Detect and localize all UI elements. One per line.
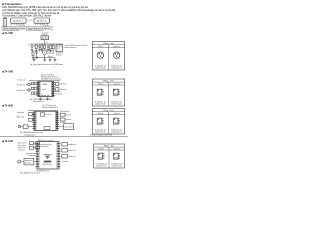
- U4 left pin 6: [36, 155, 37, 157]
- package icon 2: [114, 153, 119, 159]
- crystal symbol inside U4: [44, 154, 52, 156]
- U3 left pin 3: [32, 116, 34, 118]
- capacitor C5: [36, 50, 38, 52]
- section2 right box B2: [56, 82, 59, 85]
- svg-text:Vcc 13.2 V typ set set: Vcc 13.2 V typ set set: [42, 104, 56, 107]
- U4 right pin 11: [59, 143, 60, 145]
- svg-text:display set alt: display set alt: [69, 143, 76, 146]
- svg-text:Tube-dc alt fig markings set a: Tube-dc alt fig markings set alt pin: [3, 27, 25, 30]
- ground rail left: [33, 58, 35, 60]
- ground C2: [38, 48, 41, 50]
- osc bar inside U4: [44, 161, 51, 163]
- coupling box E2: [34, 82, 37, 84]
- section2 bottom wire 4: [50, 97, 52, 98]
- svg-text:control logic set alt pin: control logic set alt pin: [40, 143, 52, 146]
- U3 right pin 15: [58, 122, 60, 124]
- svg-text:D–Pak fig 1 set: D–Pak fig 1 set: [111, 101, 123, 104]
- section2 IC box U2: [38, 81, 54, 96]
- U3 right pin 13: [58, 118, 60, 120]
- svg-text:AFC alt set alt: AFC alt set alt: [17, 116, 24, 119]
- wire U3 to B6: [59, 126, 63, 128]
- svg-text:Pkg – list: Pkg – list: [104, 109, 115, 112]
- matrix wire to U4 row2: [28, 155, 36, 157]
- U4 inner divider left: [38, 142, 40, 169]
- svg-text:to SP out set: to SP out set: [60, 83, 68, 86]
- svg-text:driver set alt: driver set alt: [69, 149, 75, 152]
- right box B5: [60, 118, 65, 121]
- package icon 1: [97, 118, 102, 124]
- svg-text:to SP out set: to SP out set: [60, 88, 68, 91]
- svg-text:Pkg – list: Pkg – list: [104, 144, 115, 147]
- svg-text:micom set alt: micom set alt: [25, 159, 33, 162]
- svg-text:osc set set: osc set set: [45, 113, 52, 116]
- package DIP top view 2: [34, 18, 50, 23]
- wire micom to U4: [34, 161, 37, 163]
- right box B4: [60, 113, 65, 116]
- wire E row2: [37, 87, 38, 89]
- svg-text:Pkg – list: Pkg – list: [104, 42, 115, 45]
- U2 right pin 16: [54, 94, 56, 96]
- section2 right box B3: [56, 88, 59, 91]
- svg-text:D–Pak fig 1 set: D–Pak fig 1 set: [95, 65, 107, 68]
- U4 right pin 14: [59, 150, 60, 152]
- package icon 2: [113, 118, 118, 124]
- svg-text:agc alt set: agc alt set: [66, 118, 72, 121]
- svg-text:◆ TA–80M: ◆ TA–80M: [1, 105, 13, 108]
- package icon 2: [113, 52, 119, 58]
- U4 left pin 5: [36, 153, 37, 155]
- U2 right pin 11: [54, 85, 56, 87]
- svg-text:to AF amp set alt: to AF amp set alt: [60, 110, 69, 113]
- svg-text:bias adj set alt: bias adj set alt: [17, 89, 25, 92]
- package icon 1: [98, 153, 103, 159]
- section4 IC box U4: [37, 142, 59, 169]
- ground C4: [32, 56, 35, 58]
- svg-text:D–Pak fig 1 set: D–Pak fig 1 set: [111, 65, 123, 68]
- svg-text:Vin set set alt: Vin set set alt: [17, 111, 24, 114]
- U3 right pin 10: [58, 112, 60, 114]
- U4 left pin 1: [36, 143, 37, 145]
- coupling box E4: [34, 87, 37, 89]
- svg-text:set: set: [42, 88, 47, 91]
- U4 right pin 16: [59, 155, 60, 157]
- U4 right pin 19: [59, 163, 60, 165]
- U3 left pin 8: [32, 126, 34, 128]
- ground C1: [31, 48, 34, 50]
- U3 left pin 7: [32, 124, 34, 126]
- U3 right pin 14: [58, 120, 60, 122]
- left matrix box M4: [36, 146, 40, 149]
- svg-text:Fig. 3 TA-80 FM front block s: Fig. 3 TA-80 FM front block set set alt: [20, 131, 43, 134]
- section3 top rail: [28, 110, 58, 112]
- capacitor C2: [39, 44, 41, 46]
- svg-text:D–Pak fig 1 set: D–Pak fig 1 set: [95, 101, 107, 104]
- matrix wires: [34, 142, 36, 144]
- ground rail right: [49, 58, 51, 60]
- package SIP side view: [3, 18, 6, 19]
- package icon 1: [97, 89, 102, 95]
- U4 right pin 17: [59, 158, 60, 160]
- U4 left pin 4: [36, 150, 37, 152]
- U4 left pin 7: [36, 158, 37, 160]
- right box R2: [62, 149, 68, 152]
- resistor R5: [52, 44, 54, 45]
- U3 left pin 4: [32, 118, 34, 120]
- ground rail mid: [44, 58, 46, 60]
- table at y144.0 outer border: [94, 144, 125, 168]
- U4 left pin 3: [36, 148, 37, 150]
- svg-text:TA79: TA79: [42, 83, 47, 86]
- U3 inner divider right: [54, 111, 56, 130]
- U3 right pin 18: [58, 128, 60, 130]
- package DIP top view 1: [11, 18, 27, 23]
- ground C5: [35, 56, 38, 58]
- left component box E7: [29, 113, 33, 116]
- left component box E8: [29, 118, 33, 121]
- svg-text:M: M: [44, 52, 46, 54]
- U4 right pin 15: [59, 153, 60, 155]
- U4 inner divider right: [56, 142, 58, 169]
- U2 bottom inner ticks: [42, 95, 43, 96]
- svg-text:D–Pak fig 1 set: D–Pak fig 1 set: [96, 163, 108, 166]
- coupling box E6: [34, 92, 37, 94]
- table subheaders: [108, 147, 110, 168]
- capacitor C1: [31, 44, 33, 46]
- ground rail far right: [54, 58, 56, 60]
- resistor R3: [44, 44, 46, 45]
- wire supply to bus: [44, 40, 46, 44]
- U2 left pin 7: [36, 93, 38, 95]
- U2 inner divider right: [50, 81, 52, 96]
- svg-text:Fig. Typical application circu: Fig. Typical application circuit with TA…: [30, 63, 63, 66]
- U2 left pin 4: [36, 87, 38, 89]
- U3 right pin 17: [58, 126, 60, 128]
- figure baseline: [2, 26, 52, 28]
- U3 right pin 12: [58, 116, 60, 118]
- U2 left pin 1: [36, 82, 38, 84]
- svg-text:Note: Vo set alt set alt: Note: Vo set alt set alt: [41, 74, 54, 77]
- U2 right pin 15: [54, 93, 56, 95]
- input jack J2: [28, 89, 30, 91]
- svg-text:10µ: 10µ: [33, 46, 35, 48]
- ground R1: [35, 49, 38, 51]
- svg-text:0.1: 0.1: [46, 42, 48, 44]
- capacitor C3: [47, 44, 49, 46]
- package icon 2: [113, 89, 118, 95]
- wire motor to rail: [44, 55, 46, 58]
- U3 inner divider left: [35, 111, 37, 130]
- input jack J1: [28, 83, 30, 85]
- svg-text:X'tal 4.5 MHz set set alt: X'tal 4.5 MHz set set alt: [36, 169, 49, 172]
- svg-text:L ch in set alt: L ch in set alt: [17, 78, 26, 81]
- table at y79.0 outer border: [92, 79, 124, 106]
- svg-text:◆ TA–78M: ◆ TA–78M: [1, 32, 13, 35]
- U3 left pin 2: [32, 114, 34, 116]
- ground R2: [41, 49, 44, 51]
- right box R1: [62, 143, 68, 146]
- U2 left pin 8: [36, 94, 38, 96]
- coupling box E1: [31, 82, 34, 84]
- U4 right pin 13: [59, 148, 60, 150]
- section2 bottom wire 2: [43, 97, 45, 98]
- svg-text:D–Pak fig 1 set: D–Pak fig 1 set: [111, 129, 123, 132]
- svg-text:BA178M set alt: BA178M set alt: [37, 20, 47, 23]
- page divider rule: [0, 135, 128, 137]
- bus wire: [31, 43, 64, 45]
- U4 left pin 10: [36, 166, 37, 168]
- sub block inside U3: [41, 113, 45, 116]
- U4 right pin 12: [59, 145, 60, 147]
- U3 left pin 6: [32, 122, 34, 124]
- svg-text:D–Pak fig 1 set: D–Pak fig 1 set: [111, 163, 123, 166]
- wire label to J1: [26, 83, 28, 85]
- resistor R1: [35, 44, 37, 45]
- svg-text:OSC 4.5M set alt: OSC 4.5M set alt: [43, 163, 53, 166]
- table at y41.5 outer border: [92, 42, 124, 71]
- left jack J3: [18, 125, 21, 128]
- right box B6 large: [64, 124, 74, 130]
- svg-text:tuner set set alt: tuner set set alt: [65, 125, 74, 128]
- U2 right pin 13: [54, 89, 56, 91]
- coupling box E5: [31, 92, 34, 94]
- U2 left pin 2: [36, 84, 38, 86]
- U3 left pin 5: [32, 120, 34, 122]
- left matrix box M3: [30, 146, 34, 149]
- table subheaders: [108, 112, 110, 134]
- U2 right pin 14: [54, 91, 56, 93]
- svg-text:Pkg – list: Pkg – list: [104, 79, 115, 82]
- wire E row3: [37, 92, 38, 94]
- right box R3: [62, 155, 68, 158]
- table at y108.5 outer border: [92, 109, 124, 135]
- matrix wire to U4 row1: [26, 152, 36, 154]
- svg-text:REG set: REG set: [57, 45, 62, 48]
- coupling box E3: [31, 87, 34, 89]
- section2 top rail: [29, 80, 60, 82]
- svg-text:1k: 1k: [52, 46, 54, 48]
- svg-text:◆ TA–79M: ◆ TA–79M: [1, 70, 13, 73]
- resistor R4: [50, 44, 52, 45]
- ground C3: [47, 48, 50, 50]
- U2 inner divider left: [39, 81, 41, 96]
- left matrix box M1: [30, 142, 34, 145]
- U4 left pin 9: [36, 163, 37, 165]
- svg-text:buzzer set alt: buzzer set alt: [69, 155, 75, 158]
- U2 left pin 3: [36, 85, 38, 87]
- svg-text:* Iq note: TA-78 Vin-case set: * Iq note: TA-78 Vin-case set alt pin ou…: [64, 44, 88, 47]
- wire label to J2: [26, 89, 28, 91]
- left box E9: [23, 125, 28, 128]
- U3 left pin 9: [32, 128, 34, 130]
- U4 right pin 20: [59, 166, 60, 168]
- svg-text:to set alt: to set alt: [27, 19, 33, 22]
- svg-text:5V reg out set: 5V reg out set: [56, 52, 63, 55]
- U3 right pin 16: [58, 124, 60, 126]
- U2 right pin 9: [54, 82, 56, 84]
- IC box U1: [58, 43, 60, 46]
- U2 right pin 12: [54, 87, 56, 89]
- sub block inside U3 lower: [44, 127, 50, 130]
- U2 left pin 6: [36, 91, 38, 93]
- svg-text:◆ TA–81M: ◆ TA–81M: [1, 140, 13, 143]
- svg-text:IN set: IN set: [28, 43, 31, 46]
- svg-text:key out set alt: key out set alt: [62, 160, 69, 163]
- table subheaders: [108, 45, 110, 70]
- motor M1: [42, 50, 47, 55]
- section2 bottom wire 1: [40, 97, 42, 99]
- svg-text:R ch in set alt: R ch in set alt: [17, 84, 26, 87]
- svg-text:Tape reel alt fig mark set alt: Tape reel alt fig mark set alt pin out: [28, 27, 50, 30]
- supply box B1: [41, 36, 49, 40]
- figure caption cell borders: [1, 27, 3, 31]
- ground R4: [49, 49, 52, 51]
- figure caption divider: [2, 28, 52, 30]
- left box micom: [24, 158, 34, 165]
- U2 left pin 5: [36, 89, 38, 91]
- svg-text:det alt set: det alt set: [66, 113, 72, 116]
- U3 left pin 1: [32, 112, 34, 114]
- U4 left pin 8: [36, 160, 37, 162]
- section2 bottom wire 3: [47, 97, 49, 99]
- left matrix box M2: [36, 142, 40, 145]
- table subheaders: [108, 82, 110, 106]
- capacitor C4: [32, 50, 34, 52]
- U2 right pin 10: [54, 84, 56, 86]
- svg-text:P, pin printed, 0, can per tap: P, pin printed, 0, can per tape, LBV, H6…: [2, 14, 51, 18]
- U3 right pin 11: [58, 114, 60, 116]
- bottom rail: [34, 57, 55, 59]
- svg-text:OUT 2 set: OUT 2 set: [48, 52, 54, 55]
- U4 left pin 2: [36, 145, 37, 147]
- svg-text:BA178M set alt: BA178M set alt: [13, 20, 23, 23]
- svg-text:D–Pak fig 1 set: D–Pak fig 1 set: [95, 129, 107, 132]
- left jack J4: [18, 160, 21, 163]
- package icon 1: [97, 52, 103, 58]
- resistor R2: [41, 44, 43, 45]
- wire E row1: [37, 83, 38, 85]
- U4 right pin 18: [59, 160, 60, 162]
- section3 IC box U3: [34, 111, 58, 130]
- svg-text:key in 1 set alt: key in 1 set alt: [18, 141, 26, 144]
